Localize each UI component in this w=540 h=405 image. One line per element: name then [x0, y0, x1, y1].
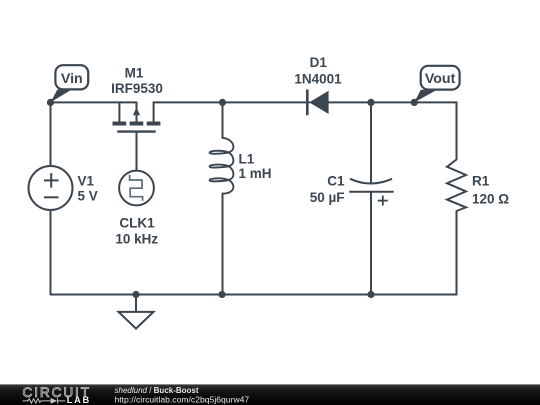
svg-text:Vin: Vin — [61, 71, 83, 87]
D1 cathode bar — [306, 90, 309, 116]
wire L1 top — [222, 102, 224, 138]
junction at C1 bottom — [367, 291, 374, 298]
wire bottom rail — [51, 294, 457, 296]
junction at ground tap — [132, 291, 139, 298]
svg-text:D1: D1 — [310, 55, 328, 70]
junction at C1 top — [367, 99, 374, 106]
label L1 1 mH — [239, 151, 272, 181]
svg-text:L1: L1 — [239, 151, 255, 166]
wire L1 bottom — [222, 194, 224, 295]
label D1 1N4001 — [294, 55, 342, 86]
svg-text:50 µF: 50 µF — [310, 190, 345, 205]
junction at L1 bottom — [218, 291, 225, 298]
label CLK1 10 kHz — [115, 216, 158, 247]
svg-text:5 V: 5 V — [78, 188, 98, 203]
M1 drain lead — [153, 102, 155, 121]
V1 minus sign — [44, 196, 59, 198]
diode D1 — [307, 90, 328, 116]
wire top rail left (Vin node to M1 source/body) — [51, 101, 137, 103]
ground — [119, 295, 154, 329]
svg-text:10 kHz: 10 kHz — [115, 232, 158, 247]
svg-text:CLK1: CLK1 — [119, 216, 155, 231]
svg-text:C1: C1 — [327, 174, 345, 189]
transistor M1 (PMOS) — [113, 102, 161, 131]
wire top rail right (D1 anode to top-right corner, down to R1) — [329, 102, 457, 159]
inductor L1 — [210, 138, 234, 194]
junction at L1 top — [219, 99, 226, 106]
resistor R1 — [447, 160, 466, 212]
label V1 5 V — [78, 173, 98, 203]
wire M1 gate to CLK1 — [136, 133, 138, 171]
node junction dots — [47, 99, 418, 298]
D1 triangle — [309, 91, 328, 114]
footer bar — [0, 384, 540, 405]
voltage source V1 — [29, 166, 73, 210]
wire C1 top — [370, 102, 372, 182]
M1 body lead — [136, 102, 138, 121]
junction at Vin node — [47, 99, 54, 106]
wire C1 bottom — [370, 192, 372, 295]
M1 source lead — [118, 102, 120, 121]
M1 gate plate — [117, 130, 156, 132]
ground stub wire — [135, 295, 137, 312]
svg-text:IRF9530: IRF9530 — [111, 81, 163, 96]
svg-text:http://circuitlab.com/c2bq5j6q: http://circuitlab.com/c2bq5j6qurw47 — [115, 394, 250, 404]
junction at Vout node — [411, 99, 418, 106]
node Vin flag — [51, 65, 89, 102]
wire top rail middle (M1 drain to D1 cathode bar) — [154, 101, 310, 103]
M1 body arrow — [133, 108, 140, 116]
CLK1 body circle — [119, 171, 154, 206]
V1 plus sign — [44, 179, 59, 181]
CLK1 square-wave glyph — [130, 175, 143, 201]
label M1 IRF9530 — [111, 66, 163, 97]
clock source CLK1 — [119, 171, 154, 206]
capacitor C1 — [349, 179, 393, 206]
svg-text:1N4001: 1N4001 — [294, 71, 342, 86]
svg-text:120 Ω: 120 Ω — [472, 191, 509, 206]
C1 straight plate — [349, 191, 393, 193]
wire left branch V1 bottom — [50, 210, 52, 295]
CircuitLab logo — [23, 385, 91, 405]
svg-text:V1: V1 — [78, 173, 95, 188]
svg-text:1 mH: 1 mH — [239, 166, 272, 181]
V1 body circle — [29, 166, 73, 210]
svg-text:Vout: Vout — [425, 71, 456, 87]
C1 curved plate — [350, 179, 392, 184]
C1 polarity plus sign — [378, 200, 388, 202]
svg-text:LAB: LAB — [67, 395, 91, 405]
svg-text:M1: M1 — [125, 66, 144, 81]
footer attribution text — [115, 386, 250, 404]
label R1 120 Ohm — [472, 174, 509, 207]
label C1 50 uF — [310, 174, 345, 205]
wire left branch V1 top — [50, 102, 52, 166]
wire R1 bottom — [456, 211, 458, 295]
ground triangle — [119, 312, 154, 329]
M1 channel bars — [113, 122, 127, 126]
node Vout flag — [414, 66, 459, 103]
svg-text:R1: R1 — [472, 174, 490, 189]
